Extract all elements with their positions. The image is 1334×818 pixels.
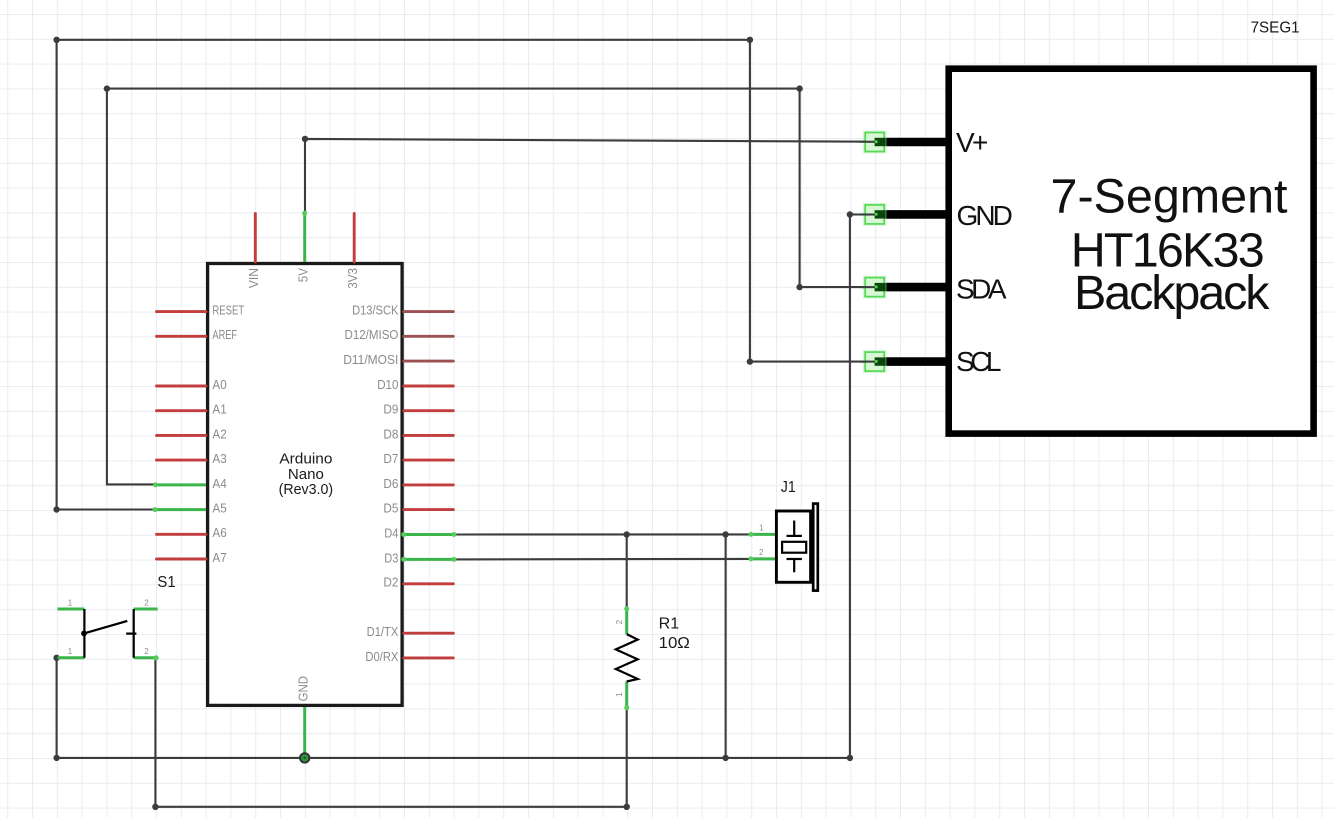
- node bend (56.6,39.8): [53, 37, 59, 43]
- top pin 5V green: [303, 213, 306, 262]
- node bend (56.6,509.5): [53, 506, 59, 512]
- svg-text:A4: A4: [212, 477, 226, 491]
- pin 2 green top: [625, 609, 628, 634]
- svg-text:(Rev3.0): (Rev3.0): [279, 481, 334, 498]
- svg-text:GND: GND: [297, 676, 311, 702]
- left pins red: [157, 312, 207, 559]
- pin D9: [404, 409, 454, 412]
- wire switch pin1 to GND rail: [56, 658, 58, 758]
- pin 1 top: [58, 608, 85, 611]
- node bend (849.9,214.5): [847, 211, 853, 217]
- pin labels: [956, 127, 1013, 377]
- svg-text:D11/MOSI: D11/MOSI: [343, 353, 398, 367]
- pin A1: [157, 409, 207, 412]
- wire bend/junction dots: [53, 37, 853, 810]
- svg-text:2: 2: [144, 598, 149, 607]
- wire D4 to R1/J1: [454, 533, 751, 535]
- svg-text:Backpack: Backpack: [1074, 266, 1270, 320]
- svg-text:D2: D2: [383, 576, 398, 590]
- backpack body: [949, 69, 1314, 434]
- title: [1051, 169, 1289, 320]
- node bend (799.6,88.6): [796, 85, 802, 91]
- pin GND bar: [875, 210, 947, 219]
- pin 2 top: [134, 608, 158, 611]
- svg-text:1: 1: [759, 524, 764, 533]
- wire GND vertical from backpack: [849, 215, 851, 758]
- wire net 5V to V+: [305, 139, 875, 213]
- resistor zigzag: [616, 634, 638, 681]
- svg-text:D8: D8: [383, 427, 398, 441]
- svg-text:SDA: SDA: [956, 273, 1007, 304]
- pin D3 green: [404, 558, 454, 561]
- svg-text:1: 1: [68, 598, 73, 607]
- svg-text:D5: D5: [383, 502, 398, 516]
- pin D2: [404, 582, 454, 585]
- node bend (849.9,757.9): [847, 755, 853, 761]
- pin V+ bar: [875, 138, 947, 147]
- pin A2: [157, 434, 207, 437]
- svg-text:7SEG1: 7SEG1: [1251, 19, 1300, 36]
- pin A7: [157, 558, 207, 561]
- right pins red: [404, 386, 454, 658]
- node bend (799.6,287.1): [796, 284, 802, 290]
- pin RESET: [157, 310, 207, 313]
- wire stubs over pads: [860, 142, 876, 362]
- wire R1 top branch: [626, 535, 628, 609]
- svg-text:D12/MISO: D12/MISO: [345, 328, 399, 342]
- pin D10: [404, 385, 454, 388]
- pin D13/SCK: [404, 310, 454, 313]
- wire GND backpack stub: [850, 213, 875, 215]
- pin 1 green: [750, 533, 776, 536]
- svg-text:J1: J1: [781, 479, 796, 496]
- green dot pin2 bottom: [154, 655, 159, 660]
- pin SDA bar: [875, 283, 947, 292]
- svg-text:D0/RX: D0/RX: [365, 650, 399, 664]
- svg-text:AREF: AREF: [212, 328, 237, 342]
- svg-text:5V: 5V: [297, 267, 311, 282]
- pin SCL bar: [875, 357, 947, 366]
- node bend (626.7,806.8): [624, 804, 630, 810]
- node bend (749.9,361.6): [747, 358, 753, 364]
- node bend (56.6,657.8): [53, 655, 59, 661]
- label R1 / 10ohm: [659, 616, 690, 653]
- svg-text:A3: A3: [212, 452, 226, 466]
- side bar: [813, 504, 818, 591]
- svg-text:D13/SCK: D13/SCK: [352, 304, 399, 318]
- node bend (305,138.9): [302, 136, 308, 142]
- pin D1/TX: [404, 632, 454, 635]
- svg-text:2: 2: [759, 548, 764, 557]
- svg-text:2: 2: [144, 647, 149, 656]
- pin 1 bottom: [58, 656, 85, 659]
- svg-text:R1: R1: [659, 616, 680, 633]
- top pin 3V3 red: [353, 214, 356, 263]
- svg-text:2: 2: [615, 619, 624, 624]
- pads (light green squares with dark green pin tip): [864, 131, 886, 372]
- pin D5: [404, 508, 454, 511]
- svg-text:D7: D7: [383, 452, 398, 466]
- wire R1 bottom to switch pin2: [155, 658, 626, 807]
- pin number labels rotated: [615, 619, 624, 697]
- wire D3 to J1 pin2: [454, 558, 751, 561]
- svg-text:7-Segment: 7-Segment: [1051, 169, 1289, 223]
- pin D7: [404, 459, 454, 462]
- svg-text:D1/TX: D1/TX: [367, 625, 399, 639]
- svg-text:D4: D4: [384, 526, 398, 540]
- pad SDA: [864, 276, 886, 297]
- bottom pin GND green: [303, 707, 306, 758]
- svg-text:A7: A7: [212, 551, 226, 565]
- svg-text:A2: A2: [212, 427, 226, 441]
- node junction (725.6,534.5): [722, 531, 728, 537]
- svg-text:10Ω: 10Ω: [659, 635, 690, 652]
- svg-text:D3: D3: [384, 551, 398, 565]
- pin A3: [157, 459, 207, 462]
- pin A0: [157, 385, 207, 388]
- green dots: [624, 606, 629, 611]
- pin 2 green: [750, 557, 776, 560]
- svg-text:RESET: RESET: [212, 304, 244, 318]
- wire J1 pin1 to GND: [725, 535, 727, 758]
- node junction (626.7,534.5): [624, 531, 630, 537]
- pin 1 green bottom: [625, 682, 628, 708]
- pin AREF: [157, 335, 207, 338]
- pin D4 green: [404, 533, 454, 536]
- pin number labels: [68, 598, 150, 656]
- wire net SDA: A4 to SDA: [107, 89, 875, 485]
- pad V+: [864, 131, 886, 152]
- svg-text:D6: D6: [383, 477, 398, 491]
- wire net SCL: A5 to SCL: [57, 40, 875, 510]
- pin D11/MOSI: [404, 360, 454, 363]
- svg-text:A1: A1: [212, 403, 226, 417]
- svg-text:A6: A6: [212, 526, 226, 540]
- pin number labels: [759, 524, 764, 558]
- wire GND rail: [57, 757, 850, 759]
- svg-text:S1: S1: [157, 574, 175, 591]
- svg-text:A0: A0: [212, 378, 226, 392]
- svg-text:GND: GND: [957, 200, 1013, 231]
- right pins dark red D13 D12 D11: [404, 312, 454, 362]
- pin D0/RX: [404, 656, 454, 659]
- svg-text:SCL: SCL: [956, 346, 1002, 377]
- labels: [212, 267, 399, 701]
- arduino body: [208, 264, 403, 706]
- node bend (155.4,806.8): [152, 804, 158, 810]
- switch body: [84, 609, 136, 658]
- buzzer body: [776, 511, 810, 582]
- pin bars black: [875, 142, 947, 362]
- svg-text:V+: V+: [956, 127, 988, 158]
- node bend (56.6,757.9): [53, 755, 59, 761]
- node GND junction green: [300, 753, 309, 762]
- node bend (106.9,88.6): [104, 85, 110, 91]
- switch pins green: [58, 609, 158, 658]
- svg-text:1: 1: [615, 692, 624, 697]
- svg-text:D9: D9: [383, 403, 398, 417]
- node junction (725.6,757.9): [722, 755, 728, 761]
- pad GND: [864, 204, 886, 225]
- arduino title: [279, 451, 334, 499]
- inner symbol: [782, 521, 806, 573]
- pin A5 green: [155, 508, 206, 511]
- pin D8: [404, 434, 454, 437]
- pin A6: [157, 533, 207, 536]
- pin A4 green: [156, 483, 207, 486]
- node bend (749.9,39.8): [747, 37, 753, 43]
- svg-text:A5: A5: [212, 502, 226, 516]
- green connection dots arduino pins: [153, 211, 457, 562]
- svg-text:VIN: VIN: [247, 268, 261, 288]
- pin D12/MISO: [404, 335, 454, 338]
- pin 2 bottom: [134, 656, 158, 659]
- top pin VIN red: [254, 214, 257, 263]
- pin D6: [404, 483, 454, 486]
- pad SCL: [864, 351, 886, 372]
- svg-text:1: 1: [68, 647, 73, 656]
- svg-text:D10: D10: [377, 378, 398, 392]
- svg-text:3V3: 3V3: [346, 268, 360, 289]
